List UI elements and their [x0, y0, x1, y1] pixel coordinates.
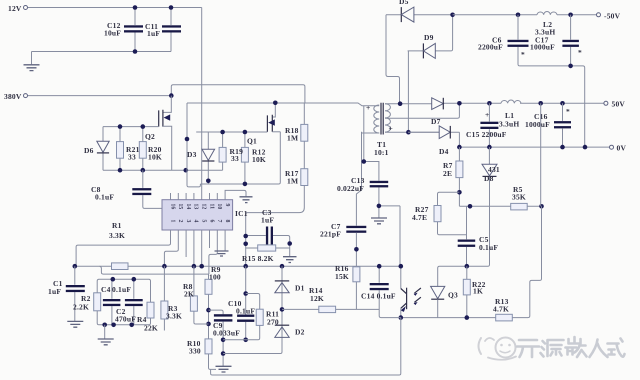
svg-text:7: 7: [216, 220, 222, 223]
svg-text:33: 33: [128, 153, 136, 162]
svg-text:0.1uF: 0.1uF: [112, 285, 131, 294]
svg-text:+: +: [485, 110, 489, 119]
svg-text:1: 1: [169, 220, 175, 223]
svg-text:3.3uH: 3.3uH: [499, 120, 519, 129]
svg-text:D2: D2: [295, 328, 305, 337]
svg-text:14: 14: [185, 204, 191, 210]
svg-text:5: 5: [201, 220, 207, 223]
svg-text:16: 16: [169, 204, 175, 210]
svg-text:1uF: 1uF: [48, 287, 61, 296]
svg-text:50V: 50V: [612, 100, 626, 109]
svg-text:6: 6: [208, 220, 214, 223]
svg-text:Q3: Q3: [448, 291, 458, 300]
svg-text:33: 33: [231, 154, 239, 163]
svg-text:IC1: IC1: [235, 209, 248, 218]
svg-text:330: 330: [189, 347, 201, 356]
svg-text:0.1uF: 0.1uF: [236, 307, 255, 316]
svg-text:1M: 1M: [287, 134, 298, 143]
svg-text:12: 12: [201, 204, 207, 210]
svg-text:11: 11: [208, 204, 214, 210]
svg-text:*: *: [521, 50, 525, 59]
svg-text:1uF: 1uF: [261, 216, 274, 225]
svg-text:15K: 15K: [335, 272, 349, 281]
svg-text:0V: 0V: [617, 144, 627, 153]
svg-text:D3: D3: [187, 150, 197, 159]
svg-text:1M: 1M: [287, 177, 298, 186]
svg-text:C14 0.1uF: C14 0.1uF: [361, 292, 396, 301]
svg-text:9: 9: [224, 204, 230, 207]
svg-text:15: 15: [177, 204, 183, 210]
svg-text:D8: D8: [484, 174, 494, 183]
svg-text:1000uF: 1000uF: [530, 43, 555, 52]
svg-text:8: 8: [224, 220, 230, 223]
svg-text:10K: 10K: [148, 153, 162, 162]
svg-text:Q2: Q2: [145, 132, 155, 141]
svg-text:0.1uF: 0.1uF: [479, 243, 498, 252]
svg-text:+: +: [366, 103, 370, 112]
svg-text:-50V: -50V: [604, 12, 621, 21]
svg-text:D6: D6: [84, 146, 94, 155]
svg-text:R1: R1: [112, 221, 122, 230]
svg-text:10K: 10K: [252, 155, 266, 164]
svg-text:221pF: 221pF: [320, 230, 341, 239]
svg-text:2K: 2K: [184, 290, 194, 299]
svg-text:1K: 1K: [473, 287, 483, 296]
svg-text:4.7K: 4.7K: [493, 305, 509, 314]
svg-text:D4: D4: [439, 147, 449, 156]
svg-text:2: 2: [177, 220, 183, 223]
svg-text:10uF: 10uF: [104, 29, 121, 38]
svg-text:12K: 12K: [310, 294, 324, 303]
svg-text:2.2K: 2.2K: [73, 303, 89, 312]
svg-text:4: 4: [193, 220, 199, 223]
svg-text:D7: D7: [431, 117, 441, 126]
svg-text:1uF: 1uF: [147, 29, 160, 38]
svg-text:10: 10: [216, 204, 222, 210]
svg-text:R5: R5: [513, 185, 523, 194]
svg-text:*: *: [578, 48, 582, 57]
svg-text:431: 431: [488, 165, 500, 174]
svg-text:12V: 12V: [8, 4, 22, 13]
svg-text:D5: D5: [399, 0, 409, 6]
svg-text:10:1: 10:1: [374, 148, 389, 157]
svg-text:3.3K: 3.3K: [166, 312, 182, 321]
svg-text:2200uF: 2200uF: [478, 43, 503, 52]
svg-text:470uF: 470uF: [115, 315, 136, 324]
svg-text:2E: 2E: [443, 169, 452, 178]
svg-text:100: 100: [209, 273, 221, 282]
svg-text:R15 8.2K: R15 8.2K: [242, 254, 274, 263]
svg-text:D9: D9: [424, 33, 434, 42]
svg-text:+: +: [389, 124, 393, 133]
svg-text:3: 3: [185, 220, 191, 223]
svg-text:380V: 380V: [4, 92, 22, 101]
svg-text:3.3K: 3.3K: [109, 231, 125, 240]
svg-text:D1: D1: [295, 284, 305, 293]
svg-text:C4: C4: [101, 285, 111, 294]
svg-text:0.033uF: 0.033uF: [213, 329, 240, 338]
svg-text:C15 2200uF: C15 2200uF: [466, 130, 507, 139]
svg-text:*: *: [566, 107, 570, 116]
svg-text:4.7E: 4.7E: [412, 213, 427, 222]
svg-text:1000uF: 1000uF: [525, 120, 550, 129]
svg-text:0.022uF: 0.022uF: [337, 184, 364, 193]
svg-text:13: 13: [193, 204, 199, 210]
svg-text:Q1: Q1: [247, 137, 257, 146]
svg-text:0.1uF: 0.1uF: [95, 193, 114, 202]
